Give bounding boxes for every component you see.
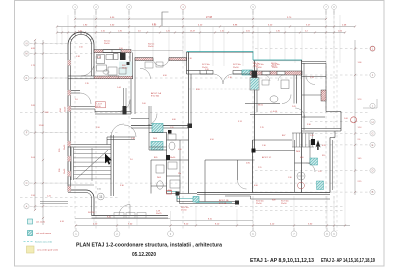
title date — [132, 252, 156, 258]
wall right H row — [250, 114, 302, 116]
svg-text:M: M — [25, 52, 27, 56]
landing wall — [68, 185, 102, 191]
red labels top middle — [188, 58, 280, 69]
svg-text:1.06: 1.06 — [344, 118, 348, 120]
extension lines bottom — [94, 131, 345, 230]
svg-text:S04: S04 — [60, 109, 62, 112]
wall corridor east upper — [124, 88, 127, 106]
svg-text:0.90: 0.90 — [254, 185, 258, 187]
wall top middle hatched right — [169, 58, 187, 61]
svg-text:+/- 0.00: +/- 0.00 — [270, 111, 278, 113]
wall top middle hatched left — [135, 58, 153, 61]
teal junction box — [193, 197, 199, 203]
svg-text:0.90: 0.90 — [178, 149, 182, 151]
svg-text:2.15: 2.15 — [260, 127, 264, 129]
teal structure line right — [253, 59, 302, 62]
red junction box — [167, 191, 172, 195]
title etaj labels — [250, 258, 375, 264]
svg-text:3.30: 3.30 — [120, 185, 124, 187]
svg-text:D: D — [372, 169, 374, 173]
svg-text:5.38: 5.38 — [76, 56, 80, 58]
wall right bath south — [245, 95, 291, 104]
wall stair top — [68, 137, 135, 147]
wall right vertical main — [302, 60, 305, 193]
bath walls middle — [131, 106, 189, 194]
legend swatch 3 dashed teal line — [24, 241, 34, 243]
svg-text:N: N — [26, 42, 28, 46]
svg-text:E: E — [372, 143, 374, 147]
legend swatch 4 yellow square — [27, 246, 35, 253]
svg-text:S10: S10 — [322, 155, 325, 157]
svg-text:1.10: 1.10 — [228, 77, 232, 79]
bottom dimension line — [60, 211, 350, 227]
hook symbol top — [152, 12, 169, 26]
wall living top — [187, 52, 261, 89]
svg-text:2.60: 2.60 — [142, 103, 146, 105]
svg-text:1.90: 1.90 — [96, 127, 100, 129]
column C2 black — [123, 106, 127, 115]
left dimension line column A — [31, 39, 36, 211]
svg-text:S09: S09 — [272, 200, 275, 202]
wall right top hatched — [250, 71, 302, 75]
teal shower box 1 — [152, 124, 163, 133]
wall room A east — [130, 53, 135, 115]
svg-text:W 05: W 05 — [258, 105, 264, 107]
svg-text:PLAN ETAJ 1-2-coordonare struc: PLAN ETAJ 1-2-coordonare structura, inst… — [76, 243, 223, 249]
ledge line top — [132, 49, 183, 51]
svg-text:1.30: 1.30 — [262, 145, 266, 147]
window arcs top right — [264, 75, 284, 81]
grid bubbles left column — [24, 41, 29, 209]
red dimension annotations scattered — [75, 69, 326, 187]
wall arc tower bay — [68, 32, 94, 76]
red label L2.07 — [96, 102, 106, 108]
right apartment interior — [252, 139, 324, 192]
svg-text:2.74: 2.74 — [310, 77, 314, 79]
svg-text:25x: 25x — [178, 173, 181, 175]
door arc bottom left — [119, 205, 130, 216]
wall stair east — [111, 135, 114, 196]
bath fixtures middle — [156, 130, 180, 189]
stairs right — [292, 133, 314, 147]
red circle marker top right — [370, 46, 375, 51]
svg-text:50x25: 50x25 — [253, 65, 259, 67]
top dimension line row 2 — [56, 24, 356, 27]
extension lines top — [57, 10, 340, 66]
svg-text:25x50: 25x50 — [281, 203, 287, 205]
svg-text:K: K — [26, 76, 28, 80]
wall K row left — [68, 76, 94, 79]
column C1 black — [120, 53, 126, 61]
wall F row middle — [131, 126, 189, 129]
furniture room B top — [145, 62, 163, 68]
svg-text:05.12.2020: 05.12.2020 — [132, 252, 156, 258]
left dimension line column B — [39, 40, 52, 225]
svg-text:25x50: 25x50 — [256, 203, 262, 205]
svg-text:50x25: 50x25 — [156, 213, 162, 215]
wall room C east divider — [238, 160, 247, 189]
svg-text:AP ET. 1C: AP ET. 1C — [262, 156, 272, 159]
wall bottom south — [92, 216, 169, 219]
column C3 — [188, 124, 193, 129]
svg-text:50x50: 50x50 — [170, 157, 175, 159]
svg-text:ET.2 5A: ET.2 5A — [151, 95, 159, 98]
svg-text:G: G — [371, 132, 373, 136]
wall hallway row — [68, 91, 91, 105]
legend label 1 — [36, 222, 46, 224]
svg-text:0.90: 0.90 — [300, 157, 304, 159]
door arc room A south — [119, 67, 151, 79]
double door top middle — [153, 58, 169, 66]
svg-text:1.20: 1.20 — [318, 171, 322, 173]
legend swatch 2 teal square hatched — [28, 231, 33, 236]
red labels bath middle — [131, 127, 182, 192]
svg-text:12.08: 12.08 — [39, 125, 45, 127]
svg-text:4.50: 4.50 — [210, 139, 214, 141]
right rooms walls — [302, 62, 342, 193]
svg-text:1.35: 1.35 — [97, 57, 101, 59]
red labels right top — [253, 63, 277, 67]
wall central vertical main — [189, 52, 192, 194]
svg-text:0.95: 0.95 — [322, 145, 326, 147]
svg-text:A: A — [26, 204, 28, 208]
top dimension line row 3 — [56, 30, 346, 33]
svg-text:25x50: 25x50 — [64, 145, 66, 150]
svg-text:B: B — [372, 190, 374, 194]
svg-text:1.50: 1.50 — [79, 47, 83, 49]
teal shower box 2 — [151, 142, 163, 151]
svg-text:zid. vechi: zid. vechi — [36, 222, 46, 224]
svg-text:1.30: 1.30 — [288, 177, 292, 179]
svg-text:B05: B05 — [154, 157, 157, 159]
circled node 25 — [97, 193, 104, 200]
black block bath — [166, 155, 170, 160]
grid bubbles bottom row — [73, 228, 337, 237]
double door corridor — [111, 124, 136, 137]
svg-text:AP ET. 1B: AP ET. 1B — [219, 199, 229, 202]
column C4 — [176, 192, 240, 205]
wall room A hatched top — [94, 50, 131, 53]
wall right bath east — [294, 75, 297, 104]
svg-text:2.0: 2.0 — [75, 99, 78, 101]
red labels right rooms — [307, 77, 348, 126]
bath right fixtures — [250, 78, 289, 103]
svg-text:1.35: 1.35 — [85, 83, 89, 85]
svg-text:zona verde gard verde: zona verde gard verde — [37, 249, 59, 252]
svg-text:2.0: 2.0 — [130, 159, 133, 161]
svg-text:W04: W04 — [157, 177, 161, 179]
svg-text:1.50: 1.50 — [119, 48, 123, 50]
right dimension line — [354, 40, 362, 195]
svg-text:ETAJ 1- AP 8,9,10,11,12,13: ETAJ 1- AP 8,9,10,11,12,13 — [250, 258, 314, 264]
legend label 3 — [35, 241, 53, 244]
svg-text:27.08: 27.08 — [206, 16, 213, 19]
mouse cursor — [105, 154, 112, 165]
legend swatch 1 teal square — [28, 219, 33, 224]
wall room B divider — [130, 79, 132, 114]
red wall hatch columns left — [68, 60, 71, 192]
title main — [76, 243, 223, 249]
top dimension line row 1 — [74, 16, 327, 20]
svg-text:8.98: 8.98 — [196, 89, 200, 91]
svg-text:AP ET. 1A: AP ET. 1A — [151, 92, 161, 95]
wall left wing bottom corner — [68, 190, 94, 216]
svg-text:3.74: 3.74 — [238, 121, 242, 123]
grid bubbles right column — [370, 46, 375, 195]
column C5 black — [252, 71, 258, 83]
svg-text:50x50: 50x50 — [148, 46, 154, 48]
wall east living — [255, 60, 258, 152]
svg-text:B07: B07 — [282, 135, 285, 137]
kitchen fixtures room A — [97, 54, 130, 76]
svg-text:0.90: 0.90 — [163, 75, 167, 77]
svg-text:ETAJ 2- AP 14,15,16,17,18,19: ETAJ 2- AP 14,15,16,17,18,19 — [321, 258, 375, 264]
svg-text:50x50: 50x50 — [122, 67, 127, 69]
grid axis dashed lines — [20, 11, 369, 231]
svg-text:1.44: 1.44 — [117, 87, 121, 89]
red labels above room A — [76, 41, 154, 70]
window marks bottom wall — [114, 213, 146, 219]
svg-text:25x50: 25x50 — [64, 169, 66, 174]
svg-text:1.20: 1.20 — [205, 69, 209, 71]
svg-text:25x50: 25x50 — [233, 67, 239, 69]
svg-text:2.05: 2.05 — [292, 106, 296, 108]
red wall labels stair left — [59, 107, 67, 174]
legend label 2 — [36, 233, 52, 235]
door arc room B — [118, 100, 130, 112]
svg-text:ET.2 6B: ET.2 6B — [219, 203, 227, 205]
red label AP ET — [151, 92, 161, 98]
teal stepped structure line bottom — [166, 192, 232, 203]
svg-text:S06: S06 — [59, 169, 61, 172]
svg-text:W03: W03 — [153, 138, 157, 140]
svg-text:50x25: 50x25 — [271, 65, 277, 67]
wall right apartment outline — [253, 140, 296, 193]
svg-text:25x50: 25x50 — [181, 209, 187, 211]
hook symbol right — [363, 99, 377, 108]
teal structure line top — [187, 52, 254, 60]
door swing inside tower — [81, 63, 94, 76]
svg-text:1.10: 1.10 — [152, 24, 156, 26]
red label W05 — [258, 105, 278, 114]
red circle marker right — [351, 117, 357, 123]
door arc right H row — [295, 76, 315, 119]
svg-text:50x50: 50x50 — [104, 43, 110, 45]
wall room A bottom hatched — [94, 76, 133, 79]
wall stepped bottom middle — [167, 193, 331, 204]
red hatch column right — [321, 90, 326, 101]
wall room C divider — [205, 160, 255, 202]
svg-text:zid. vechi comun: zid. vechi comun — [36, 233, 52, 235]
window rect room A top — [103, 50, 121, 53]
svg-text:Sectiune zona verde: Sectiune zona verde — [35, 241, 53, 244]
svg-text:S07 50: S07 50 — [88, 212, 95, 214]
stair left flight — [71, 148, 111, 182]
svg-text:1.20: 1.20 — [170, 127, 174, 129]
stair arrow right — [316, 140, 321, 150]
svg-text:S05: S05 — [59, 149, 61, 152]
legend label 4 — [37, 249, 59, 252]
svg-text:25x50: 25x50 — [65, 107, 67, 112]
extension lines left — [30, 43, 68, 206]
wall F row upper — [68, 107, 131, 115]
grid bubbles top row — [73, 5, 337, 15]
svg-text:1.45: 1.45 — [310, 135, 314, 137]
door arc room B south — [145, 114, 157, 126]
red labels right apartment — [256, 135, 325, 205]
red label under bottom wall — [88, 212, 95, 214]
svg-text:C: C — [26, 181, 28, 185]
svg-text:2.15: 2.15 — [258, 167, 262, 169]
svg-text:3.30: 3.30 — [307, 124, 311, 126]
window mullions tower arc — [70, 32, 93, 40]
svg-text:16.47: 16.47 — [190, 30, 196, 32]
teal wash room A — [119, 62, 132, 77]
svg-text:0.80: 0.80 — [172, 119, 176, 121]
wall left wing west — [68, 76, 70, 190]
svg-text:W06: W06 — [296, 151, 300, 153]
red labels room C — [181, 163, 251, 212]
retaining wall bottom left — [40, 202, 68, 204]
svg-text:H: H — [372, 120, 374, 124]
